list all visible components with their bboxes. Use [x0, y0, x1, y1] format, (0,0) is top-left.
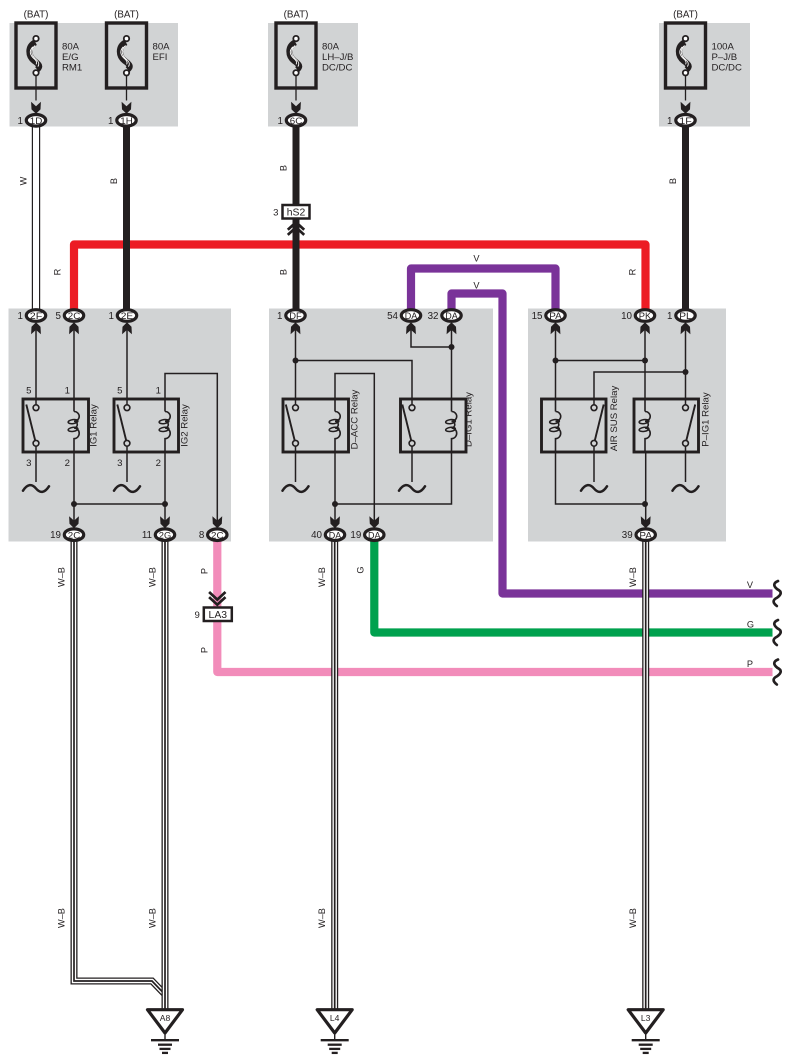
svg-text:40: 40: [311, 530, 322, 541]
junction block panel (P-J/B fusible link): [659, 23, 750, 127]
wire AIR SUS switch to open end: [593, 446, 595, 482]
svg-text:1: 1: [667, 311, 672, 322]
svg-text:AIR SUS Relay: AIR SUS Relay: [609, 386, 620, 452]
svg-text:80A: 80A: [62, 42, 80, 53]
junction dot PA 39 return: [642, 501, 648, 507]
svg-text:1H: 1H: [120, 116, 133, 127]
wire arrow into connector: [641, 516, 651, 528]
relay block panel (D-ACC/D-IG1 relays): [269, 309, 493, 542]
fusible link 80A EFI: [107, 23, 147, 88]
wire R (red) from connector 2C to connector PK: [74, 245, 646, 313]
wire arrow into connector: [406, 322, 416, 334]
wire DA 32 to D-IG1 coil: [451, 330, 453, 399]
svg-text:IG2 Relay: IG2 Relay: [180, 404, 191, 447]
wire arrow into connector: [447, 322, 457, 334]
connector 2G pin 11: [155, 529, 174, 541]
wire D-ACC coil to connector DA 40: [334, 452, 336, 521]
relay IG1 switch: [35, 399, 37, 405]
connector 1D pin 1: [26, 115, 45, 127]
wire W-B from connector PA 39 to ground L3: [642, 538, 649, 1010]
svg-text:B: B: [279, 165, 289, 171]
svg-text:W–B: W–B: [628, 908, 638, 928]
wire arrow into connector: [291, 322, 301, 334]
svg-text:D–ACC Relay: D–ACC Relay: [350, 389, 361, 449]
fusible link 80A LH-J/B DC/DC: [276, 23, 316, 88]
wire PK to P-IG1 coil: [644, 330, 646, 399]
svg-text:6C: 6C: [290, 116, 303, 127]
svg-text:54: 54: [387, 311, 398, 322]
wire IG1 coil to connector 2C 19: [73, 452, 75, 521]
relay AIR SUS coil: [555, 399, 557, 412]
relay D-IG1 box: [401, 399, 467, 452]
wire D-ACC coil feed to connector DA 19: [335, 374, 374, 522]
junction dot PA join: [553, 358, 559, 364]
relay block panel (AIR SUS/P-IG1 relays): [528, 309, 726, 542]
svg-text:2C: 2C: [68, 311, 81, 322]
svg-text:DA: DA: [445, 311, 458, 322]
relay D-ACC box: [283, 399, 349, 452]
wire IG2 coil to connector 2G 11: [164, 452, 166, 521]
wire W-B from connector DA 40 to ground L4: [331, 538, 338, 1010]
svg-text:1: 1: [65, 386, 70, 397]
svg-text:W: W: [19, 176, 29, 185]
relay IG2 coil: [164, 399, 166, 412]
wire P (pink) from connector 2C 8 through LA3 to right edge: [217, 536, 772, 672]
svg-text:1: 1: [156, 386, 161, 397]
connector 6C pin 1: [286, 115, 305, 127]
open-circuit squiggle IG1: [23, 485, 49, 492]
svg-text:1: 1: [667, 116, 672, 127]
wire W-B from connector 2C 19 to ground A8: [74, 538, 165, 998]
relay D-ACC coil: [334, 399, 336, 412]
relay D-IG1 coil: [451, 399, 453, 412]
connector hS2 pin 3: [283, 205, 310, 219]
svg-text:2C: 2C: [211, 530, 224, 541]
fusible link 100A P-J/B DC/DC: [666, 23, 706, 88]
svg-text:PL: PL: [679, 311, 692, 322]
relay P-IG1 switch: [685, 399, 687, 405]
svg-text:P–J/B: P–J/B: [712, 52, 738, 63]
connector 2C pin 5: [64, 310, 83, 322]
wire PA/PK join: [556, 360, 646, 362]
junction dot D-ACC coil return: [332, 501, 338, 507]
svg-text:DC/DC: DC/DC: [712, 62, 742, 73]
svg-text:hS2: hS2: [287, 208, 306, 219]
wire arrow into connector: [69, 516, 79, 528]
connector 1H pin 1: [117, 115, 136, 127]
connector PA pin 15: [546, 310, 565, 322]
connector DA pin 40: [325, 529, 344, 541]
svg-text:2: 2: [65, 458, 70, 469]
wire arrow into connector: [31, 322, 41, 334]
svg-text:DA: DA: [329, 530, 342, 541]
svg-text:1: 1: [18, 116, 23, 127]
svg-text:1F: 1F: [679, 116, 692, 127]
svg-text:W–B: W–B: [148, 908, 158, 928]
ground L3: [628, 1010, 663, 1033]
relay D-ACC switch: [295, 399, 297, 405]
svg-text:LA3: LA3: [209, 610, 228, 621]
wire AIR SUS coil return join: [556, 452, 646, 504]
wire arrow into connector: [551, 322, 561, 334]
wire arrow into connector: [160, 516, 170, 528]
connector 1F pin 1: [676, 115, 695, 127]
wire DF branch to D-IG1 switch: [296, 361, 413, 400]
wire arrow into connector: [69, 322, 79, 334]
wire joining IG1/IG2 coil returns: [74, 503, 165, 505]
wire PL branch to AIR SUS switch: [594, 372, 686, 399]
connector PK pin 10: [635, 310, 654, 322]
wire-continues squiggle (G): [774, 620, 781, 645]
relay IG2 switch: [126, 399, 128, 405]
svg-text:EFI: EFI: [153, 52, 168, 63]
connector 2C pin 8: [208, 529, 227, 541]
svg-text:19: 19: [350, 530, 361, 541]
svg-text:8: 8: [199, 530, 205, 541]
svg-text:11: 11: [142, 530, 152, 541]
svg-text:IG1 Relay: IG1 Relay: [89, 404, 100, 447]
svg-text:D–IG1 Relay: D–IG1 Relay: [464, 392, 475, 447]
wire D-ACC switch to open end: [295, 446, 297, 482]
open-circuit squiggle D-IG1: [399, 485, 425, 492]
wire D-IG1 switch to open end: [411, 446, 413, 482]
svg-text:9: 9: [194, 610, 199, 621]
connector 2C pin 19: [64, 529, 83, 541]
svg-text:DF: DF: [289, 311, 302, 322]
svg-text:PA: PA: [549, 311, 562, 322]
connector DA pin 32: [442, 310, 461, 322]
svg-text:1: 1: [109, 311, 114, 322]
wire P-IG1 switch to open end: [685, 446, 687, 482]
svg-text:P–IG1 Relay: P–IG1 Relay: [701, 392, 712, 447]
svg-text:(BAT): (BAT): [673, 10, 698, 21]
wire 2C to IG1 relay coil: [73, 330, 75, 399]
wire V (violet) from connector DA 32 to right edge: [452, 294, 773, 594]
ground L4: [317, 1010, 352, 1033]
junction dot DF branch: [293, 358, 299, 364]
connector PL pin 1: [676, 310, 695, 322]
svg-text:B: B: [279, 269, 289, 275]
svg-text:G: G: [747, 620, 754, 630]
svg-text:(BAT): (BAT): [24, 10, 49, 21]
wire IG2 switch to open end: [126, 446, 128, 482]
wire arrow into connector: [122, 322, 132, 334]
svg-text:100A: 100A: [712, 42, 735, 53]
wire DA 54 to DA 32 join: [411, 330, 452, 347]
connector PA pin 39: [636, 529, 655, 541]
open-circuit squiggle P-IG1: [673, 485, 699, 492]
svg-text:W–B: W–B: [57, 908, 67, 928]
wire DF to D-ACC relay switch: [295, 330, 297, 399]
svg-text:W–B: W–B: [317, 908, 327, 928]
svg-text:2G: 2G: [159, 530, 172, 541]
svg-text:V: V: [747, 580, 754, 590]
svg-text:R: R: [53, 268, 63, 275]
wire-continues squiggle (V): [774, 581, 781, 606]
open-circuit squiggle D-ACC: [283, 485, 309, 492]
svg-text:10: 10: [621, 311, 632, 322]
svg-text:1D: 1D: [30, 116, 43, 127]
svg-text:32: 32: [428, 311, 439, 322]
wire B from connector 1F to connector PL: [682, 126, 689, 309]
relay AIR SUS box: [542, 399, 607, 452]
junction dot PL branch: [683, 369, 689, 375]
open-circuit squiggle AIR SUS: [581, 485, 607, 492]
wire arrow into connector: [681, 322, 691, 334]
svg-text:G: G: [356, 566, 366, 573]
wire G (green) from connector DA 19 to right edge: [374, 536, 772, 633]
svg-text:B: B: [668, 178, 678, 184]
svg-text:2E: 2E: [121, 311, 134, 322]
svg-text:PA: PA: [639, 530, 652, 541]
svg-text:1: 1: [18, 311, 23, 322]
junction block panel (LH-J/B fusible link): [268, 23, 358, 127]
wire B from connector 1H to connector 2E: [123, 126, 130, 309]
open-circuit squiggle IG2: [114, 485, 140, 492]
wire W from connector 1D to connector 2F: [32, 126, 40, 309]
svg-text:2F: 2F: [30, 311, 43, 322]
svg-text:DC/DC: DC/DC: [322, 62, 352, 73]
connector DA pin 54: [401, 310, 420, 322]
junction dot IG2 coil return: [162, 501, 168, 507]
wire arrow into connector: [330, 516, 340, 528]
wire B from connector hS2 to connector DF: [293, 219, 300, 310]
fusible link 80A E/G RM1: [16, 23, 56, 88]
svg-text:1: 1: [278, 116, 283, 127]
svg-text:LH–J/B: LH–J/B: [322, 52, 353, 63]
relay IG2 box: [114, 399, 179, 452]
relay D-IG1 switch: [411, 399, 413, 405]
junction dot DA join: [449, 344, 455, 350]
svg-text:B: B: [109, 178, 119, 184]
wire PL to P-IG1 switch: [685, 330, 687, 399]
ground A8: [148, 1010, 183, 1033]
wire-continues squiggle (P): [774, 660, 781, 685]
relay IG1 coil: [73, 399, 75, 412]
svg-text:V: V: [473, 281, 480, 291]
svg-text:RM1: RM1: [62, 62, 82, 73]
wire IG2 coil feed to connector 2C 8: [165, 374, 217, 522]
svg-text:DA: DA: [368, 530, 381, 541]
svg-text:L4: L4: [330, 1013, 340, 1023]
svg-text:W–B: W–B: [317, 567, 327, 587]
svg-text:W–B: W–B: [628, 567, 638, 587]
svg-text:(BAT): (BAT): [284, 10, 309, 21]
connector LA3 pin 9: [204, 608, 232, 622]
svg-text:DA: DA: [405, 311, 418, 322]
svg-text:5: 5: [117, 386, 122, 397]
svg-text:W–B: W–B: [57, 567, 67, 587]
junction block panel (E/G RM1 + EFI fusible links): [10, 23, 179, 127]
relay P-IG1 coil: [644, 399, 646, 412]
wire V (violet) from connector DA 54 to connector PA 15: [411, 269, 556, 319]
svg-text:80A: 80A: [322, 42, 340, 53]
wire W-B from connector 2G 11 to ground A8: [162, 538, 169, 1010]
svg-text:39: 39: [622, 530, 633, 541]
svg-text:(BAT): (BAT): [114, 10, 139, 21]
wire arrow into connector: [369, 516, 379, 528]
connector DF pin 1: [286, 310, 305, 322]
svg-text:R: R: [628, 268, 638, 275]
svg-text:W–B: W–B: [148, 567, 158, 587]
svg-text:L3: L3: [641, 1013, 651, 1023]
svg-text:3: 3: [26, 458, 31, 469]
wire arrow into connector: [212, 516, 222, 528]
wire 2E to IG2 relay switch: [126, 330, 128, 399]
junction dot IG1 coil return: [71, 501, 77, 507]
relay AIR SUS switch: [593, 399, 595, 405]
svg-text:A8: A8: [160, 1013, 171, 1023]
svg-text:PK: PK: [639, 311, 652, 322]
wire 2F to IG1 relay switch: [35, 330, 37, 399]
wire D-IG1 coil return join: [335, 452, 452, 504]
svg-text:2C: 2C: [68, 530, 81, 541]
svg-text:1: 1: [108, 116, 113, 127]
svg-text:19: 19: [50, 530, 61, 541]
relay block panel (IG1/IG2 relays): [9, 309, 232, 542]
svg-text:V: V: [473, 254, 480, 264]
wire arrow into connector: [640, 322, 650, 334]
wire B from connector 6C to connector hS2: [293, 126, 300, 205]
wire chevrons into LA3: [209, 592, 225, 605]
connector 2E pin 1: [117, 310, 136, 322]
svg-text:1: 1: [277, 311, 282, 322]
svg-text:15: 15: [532, 311, 543, 322]
svg-text:3: 3: [273, 207, 278, 218]
wire P-IG1 coil to connector PA 39: [645, 452, 647, 521]
relay P-IG1 box: [634, 399, 699, 452]
svg-text:3: 3: [117, 458, 122, 469]
svg-text:80A: 80A: [153, 42, 171, 53]
svg-text:P: P: [747, 659, 753, 669]
svg-text:P: P: [200, 647, 210, 653]
svg-text:2: 2: [156, 458, 161, 469]
relay IG1 box: [23, 399, 89, 452]
svg-text:5: 5: [56, 311, 62, 322]
svg-text:5: 5: [26, 386, 31, 397]
svg-text:P: P: [200, 568, 210, 574]
junction dot PK join: [642, 358, 648, 364]
connector DA pin 19: [365, 529, 384, 541]
wire IG1 switch to open end: [35, 446, 37, 482]
wire chevrons into hS2: [288, 222, 304, 235]
wire PA 15 to AIR SUS coil: [555, 330, 557, 399]
svg-text:E/G: E/G: [62, 52, 79, 63]
connector 2F pin 1: [26, 310, 45, 322]
